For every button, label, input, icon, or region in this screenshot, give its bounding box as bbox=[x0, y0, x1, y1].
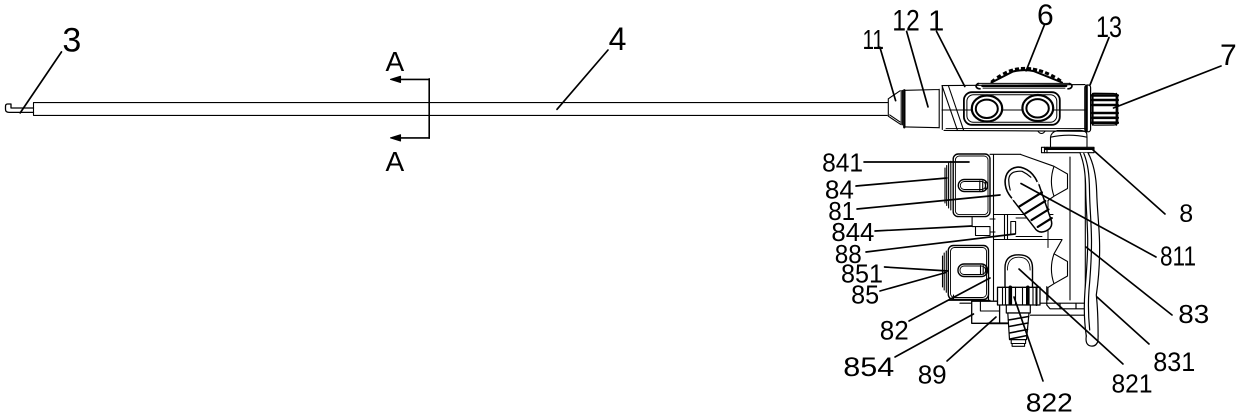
svg-text:12: 12 bbox=[892, 5, 920, 38]
svg-text:6: 6 bbox=[1037, 0, 1054, 32]
svg-text:82: 82 bbox=[880, 316, 909, 346]
svg-text:841: 841 bbox=[822, 147, 863, 177]
svg-text:11: 11 bbox=[862, 24, 884, 55]
svg-text:831: 831 bbox=[1153, 347, 1195, 377]
svg-text:7: 7 bbox=[1220, 39, 1237, 72]
svg-text:8: 8 bbox=[1179, 200, 1193, 228]
svg-text:811: 811 bbox=[1160, 241, 1196, 272]
svg-text:83: 83 bbox=[1178, 299, 1209, 329]
svg-text:3: 3 bbox=[62, 22, 81, 60]
svg-text:4: 4 bbox=[609, 21, 627, 57]
svg-text:A: A bbox=[385, 146, 404, 177]
svg-text:A: A bbox=[385, 46, 404, 77]
svg-text:821: 821 bbox=[1112, 368, 1153, 398]
svg-text:13: 13 bbox=[1096, 11, 1122, 44]
svg-text:89: 89 bbox=[918, 359, 947, 389]
svg-text:1: 1 bbox=[928, 5, 944, 37]
svg-text:854: 854 bbox=[843, 352, 894, 382]
svg-text:822: 822 bbox=[1026, 387, 1073, 416]
svg-text:85: 85 bbox=[851, 279, 879, 309]
